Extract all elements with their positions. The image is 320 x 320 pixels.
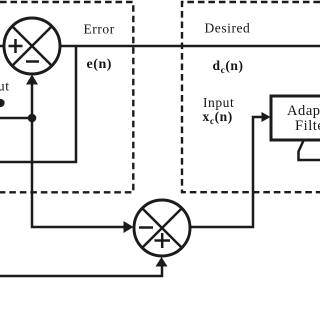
svg-text:e(n): e(n)	[87, 57, 113, 72]
svg-text:Desired: Desired	[205, 21, 251, 36]
svg-text:Error: Error	[84, 22, 115, 37]
svg-text:Filter: Filter	[295, 118, 320, 134]
svg-text:Input: Input	[203, 95, 234, 110]
svg-text:Input: Input	[0, 79, 10, 94]
svg-text:Adaptive: Adaptive	[287, 103, 320, 119]
